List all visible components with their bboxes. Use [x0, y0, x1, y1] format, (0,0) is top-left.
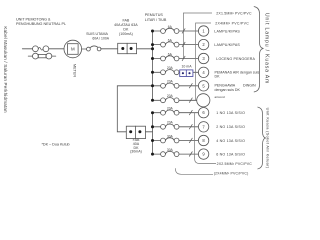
svg-text:DK: DK: [215, 75, 221, 79]
svg-text:PEMANAS AIR dengan suis: PEMANAS AIR dengan suis: [215, 71, 260, 75]
aircond circle: [197, 94, 210, 107]
wire + fuse F8 row 8: [153, 126, 161, 128]
svg-text:20A: 20A: [167, 80, 174, 84]
svg-text:20A: 20A: [167, 94, 174, 98]
circle numbers: [202, 29, 205, 157]
svg-text:M: M: [71, 47, 75, 52]
svg-text:dengan suis DK: dengan suis DK: [215, 88, 241, 92]
wire: suis utama to FAB1: [101, 48, 118, 50]
wire + fuse F5 row 5: [153, 85, 161, 87]
svg-text:DK: DK: [123, 28, 129, 32]
svg-text:DINGIN: DINGIN: [243, 84, 256, 88]
wire: FAB2 to lower busbar: [146, 131, 153, 133]
svg-text:(2X4MM² PVC/PVC): (2X4MM² PVC/PVC): [214, 172, 249, 176]
svg-text:60A / 100A: 60A / 100A: [92, 37, 109, 41]
svg-text:2X4MM² PVC/PVC: 2X4MM² PVC/PVC: [215, 22, 249, 26]
leader: 2x2.5mm cable run (lower): [195, 113, 216, 164]
svg-text:2X2.5MM² PVC/PVC: 2X2.5MM² PVC/PVC: [217, 162, 253, 166]
wire + fuse F7 row 7: [153, 112, 161, 114]
svg-text:30A: 30A: [167, 134, 174, 138]
svg-text:*DK – Dua Kutub: *DK – Dua Kutub: [42, 143, 70, 147]
svg-text:2 NO 13A S/S/O: 2 NO 13A S/S/O: [216, 125, 245, 129]
penghubung neutral (neutral link): [33, 53, 39, 59]
circuit circles 1-5: [197, 26, 210, 107]
svg-text:aircond: aircond: [215, 95, 225, 99]
wire + fuse F4 row 4: [153, 71, 161, 73]
FAB U2 40A DK 30mA (socket RCCB): [126, 126, 145, 138]
wire: lower busbar: [152, 113, 154, 154]
leader: (2x4mm): [175, 168, 213, 174]
svg-text:4 NO 13A S/S/O: 4 NO 13A S/S/O: [216, 139, 245, 143]
svg-text:40A ATAU 63A: 40A ATAU 63A: [114, 23, 138, 27]
junction dots upper bus: [151, 30, 154, 102]
conductor slash ticks upper: [182, 28, 192, 102]
svg-text:SUIS UTAMA: SUIS UTAMA: [86, 32, 108, 36]
wire: meter to suis utama: [82, 48, 87, 50]
svg-text:20A: 20A: [167, 121, 174, 125]
svg-text:METER: METER: [73, 64, 77, 78]
wire: neutral stub: [52, 55, 56, 57]
svg-text:6 NO 13A S/S/O: 6 NO 13A S/S/O: [216, 153, 245, 157]
svg-text:20A: 20A: [167, 66, 174, 70]
meter M (kWh meter): [64, 40, 82, 58]
wire + fuse F6 row 6 (aircond): [153, 99, 161, 101]
FAB contact dots: [121, 47, 141, 133]
svg-text:(100mA): (100mA): [119, 32, 133, 36]
cable run line B (2x4mm) with leader: [196, 23, 211, 100]
svg-text:10 mA: 10 mA: [181, 65, 192, 69]
svg-text:Unit Lampu / Kuasa Am: Unit Lampu / Kuasa Am: [264, 13, 270, 84]
svg-text:2X1.5MM² PVC/PVC: 2X1.5MM² PVC/PVC: [216, 12, 252, 16]
node: incoming neutral wire: [28, 55, 32, 57]
wire: FAB1 to busbar: [137, 48, 153, 50]
node: incoming supply phase wire: [22, 48, 32, 50]
svg-text:LOCENG PENGGERA: LOCENG PENGGERA: [216, 57, 255, 61]
svg-text:20A: 20A: [167, 107, 174, 111]
suis utama (main switch): [87, 47, 91, 51]
wire + fuse F2 row 2: [153, 44, 161, 46]
wire: upper busbar: [152, 31, 154, 100]
conductor slash ticks lower: [189, 110, 192, 156]
lower distribution rows: [153, 110, 199, 157]
cable run line A (2x1.5mm) with leader: [183, 13, 212, 59]
brace: unit lampu group: [254, 7, 264, 93]
wire: tap to FAB2 (elbow): [117, 86, 152, 132]
unit pemotong (service cut-out fuse): [33, 46, 39, 52]
svg-text:FAB: FAB: [123, 19, 130, 23]
wire + fuse F3 row 3: [153, 58, 161, 60]
svg-text:30A: 30A: [167, 148, 174, 152]
wire: cutout to meter: [49, 48, 64, 50]
circuit circles 6-9: [198, 108, 208, 160]
wire + fuse F1 row 1: [153, 30, 161, 32]
label: FAB2: [130, 138, 142, 153]
label: fuse ratings upper: [167, 25, 174, 98]
svg-text:Kabel Masukan / Saluran Perkhi: Kabel Masukan / Saluran Perkhidmatan: [3, 26, 8, 113]
FAB U1 40A/63A DK 100mA (RCCB): [118, 43, 137, 53]
label: fuse ratings lower: [167, 107, 174, 152]
svg-text:PENGHUBUNG NEUTRAL PL: PENGHUBUNG NEUTRAL PL: [16, 22, 66, 26]
wire + fuse F9 row 9: [153, 140, 161, 142]
svg-text:LITAR / TIUB: LITAR / TIUB: [145, 18, 167, 22]
wire + fuse F10 row 10: [153, 153, 161, 155]
svg-text:Unit Kuasa (Soket Alir Keluar): Unit Kuasa (Soket Alir Keluar): [265, 108, 269, 169]
svg-text:(30mA): (30mA): [130, 150, 142, 154]
brace: unit kuasa group: [258, 107, 266, 169]
svg-text:LAMPU/KIPAS: LAMPU/KIPAS: [214, 29, 240, 33]
svg-text:LAMPU/KIPAS: LAMPU/KIPAS: [214, 43, 240, 47]
svg-text:PEMUTUS: PEMUTUS: [145, 13, 164, 17]
junction dots lower bus: [151, 111, 154, 155]
label: FAB1: [114, 19, 138, 36]
RCD 10mA box (blue): [180, 70, 193, 77]
svg-text:1 NO 13A S/S/O: 1 NO 13A S/S/O: [216, 111, 245, 115]
upper distribution rows: [153, 28, 199, 102]
